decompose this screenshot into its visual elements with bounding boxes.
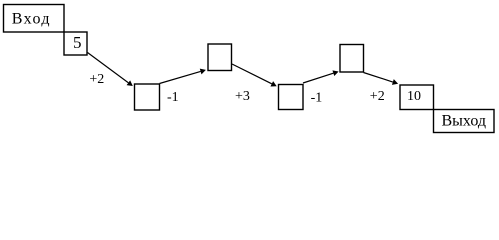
svg-text:+3: +3 [235,89,250,104]
box step2 [208,44,232,71]
arrow d [303,70,339,83]
box step4 [340,45,364,73]
arrow a (+2) [88,53,133,87]
arrow e (+2) [364,73,399,85]
svg-text:-1: -1 [167,90,179,105]
arrow b [160,69,206,84]
svg-text:+2: +2 [370,89,385,104]
svg-text:10: 10 [407,89,421,104]
box Vhod [4,5,65,33]
box Vyhod [434,110,495,133]
box 10 [400,85,434,110]
box step3 [279,85,304,110]
svg-text:5: 5 [73,33,82,52]
svg-text:+2: +2 [89,72,104,87]
box 5 [64,32,87,55]
box step1 [135,84,160,110]
svg-text:Вход: Вход [12,10,51,27]
arrow c (+3) [232,64,277,87]
svg-text:Выход: Выход [442,113,487,130]
svg-text:-1: -1 [311,90,323,105]
